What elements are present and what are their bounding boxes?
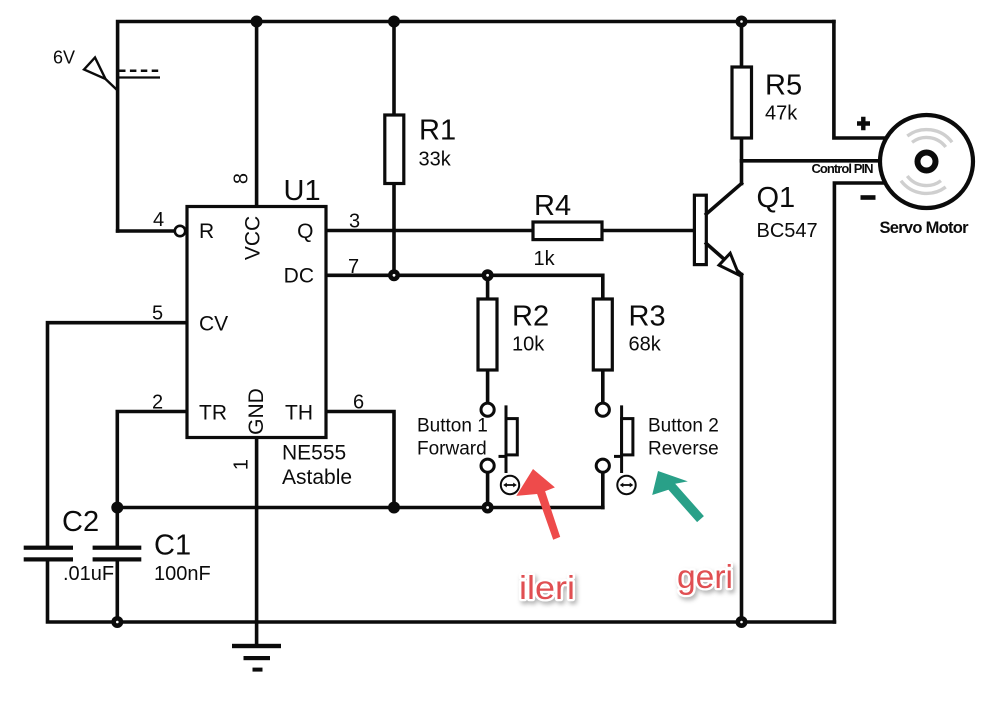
junction R5 top [736, 16, 748, 28]
wire control PIN line [742, 159, 889, 163]
wire R1 bottom to DIS net [392, 184, 396, 276]
junction R2 DIS [482, 269, 494, 281]
junction TH common [388, 502, 400, 514]
wire pin 8 VCC drop [255, 22, 259, 207]
junction TR common [111, 502, 123, 514]
svg-text:6V: 6V [53, 48, 75, 68]
wire pin 2 TR to C1 [117, 412, 187, 546]
resistor R4 [533, 222, 602, 240]
switch SW1 button 1 [481, 403, 517, 473]
svg-text:Servo Motor: Servo Motor [880, 219, 970, 237]
wire R2 to button 1 [486, 370, 490, 403]
capacitor C2 [24, 546, 73, 562]
svg-text:R5: R5 [765, 70, 802, 102]
svg-text:TR: TR [199, 402, 227, 425]
resistor R5 [732, 67, 752, 138]
svg-text:7: 7 [348, 256, 359, 278]
transistor Q1 [694, 184, 741, 276]
wire button 2 to common [601, 472, 605, 507]
wire R5 top [740, 22, 744, 68]
svg-text:68k: 68k [629, 334, 662, 356]
svg-text:Button 2: Button 2 [648, 416, 719, 437]
wire C1 bottom [116, 562, 120, 623]
wire C2 bottom and bottom rail [48, 562, 835, 623]
resistor R1 [385, 115, 404, 184]
svg-text:TH: TH [285, 402, 313, 425]
wire servo plus feed [834, 22, 888, 139]
svg-text:R2: R2 [512, 301, 549, 333]
resistor R2 [478, 299, 497, 370]
svg-text:U1: U1 [284, 175, 321, 207]
svg-text:1k: 1k [534, 248, 556, 270]
svg-text:geri: geri [677, 558, 733, 595]
svg-text:47k: 47k [765, 103, 798, 125]
wire pin 7 DC net to R3 [326, 275, 603, 299]
svg-text:Forward: Forward [417, 439, 487, 460]
junction R1 top [388, 16, 400, 28]
ground [232, 644, 281, 672]
svg-text:CV: CV [199, 312, 228, 335]
wire pin 6 TH [326, 412, 394, 508]
svg-text:C2: C2 [62, 506, 99, 538]
svg-text:10k: 10k [512, 334, 545, 356]
wire top VCC rail [118, 22, 834, 232]
svg-text:VCC: VCC [242, 216, 265, 260]
wire servo minus feed [834, 183, 888, 622]
wire R5 bottom to collector node [740, 138, 744, 184]
svg-text:DC: DC [284, 265, 314, 288]
svg-text:Button 1: Button 1 [417, 416, 488, 437]
svg-text:1: 1 [231, 459, 253, 470]
svg-text:R4: R4 [534, 190, 571, 222]
svg-text:5: 5 [152, 303, 163, 325]
svg-text:Reverse: Reverse [648, 439, 719, 460]
svg-text:Astable: Astable [282, 466, 352, 489]
switch SW2 button 2 [596, 403, 633, 473]
junction button 1 common [482, 502, 494, 514]
wire R4 to base [602, 229, 694, 233]
momentary symbol button 1 [501, 476, 519, 494]
junction emitter bottom rail [736, 616, 748, 628]
resistor R3 [593, 299, 612, 370]
wire emitter drop [740, 275, 744, 623]
svg-text:3: 3 [349, 211, 360, 233]
wire button common line [117, 506, 603, 510]
svg-text:4: 4 [153, 209, 164, 231]
svg-text:R: R [199, 220, 214, 243]
junction C1 bottom rail [111, 616, 123, 628]
wire R3 to button 2 [601, 370, 605, 403]
svg-text:8: 8 [231, 173, 253, 184]
6V supply flag [84, 58, 160, 91]
servo motor M1 [880, 115, 973, 208]
svg-text:BC547: BC547 [757, 220, 818, 242]
wire pin 4 reset [118, 229, 175, 233]
svg-text:100nF: 100nF [154, 563, 211, 585]
svg-text:Q1: Q1 [757, 182, 796, 214]
svg-text:Control PIN: Control PIN [812, 161, 874, 176]
IC U1 body [187, 207, 326, 438]
capacitor C1 [93, 546, 142, 562]
wire R1 top [392, 22, 396, 116]
wire pin 5 CV to C2 [48, 323, 188, 546]
annotation teal arrow [652, 471, 704, 522]
svg-text:C1: C1 [154, 530, 191, 562]
svg-text:.01uF: .01uF [63, 563, 114, 585]
svg-text:6: 6 [353, 392, 364, 414]
svg-text:Q: Q [297, 220, 313, 243]
annotation red arrow [516, 469, 560, 540]
svg-text:GND: GND [245, 388, 268, 435]
pin 4 inversion bubble [175, 226, 185, 236]
svg-text:33k: 33k [419, 149, 452, 171]
minus terminal [861, 195, 876, 200]
momentary symbol button 2 [617, 476, 635, 494]
wire button 1 to common [486, 472, 490, 507]
svg-text:2: 2 [152, 392, 163, 414]
junction VCC pin 8 [251, 16, 263, 28]
svg-text:R1: R1 [419, 114, 456, 146]
junction R1 DIS [388, 269, 400, 281]
svg-text:R3: R3 [629, 301, 666, 333]
svg-text:ileri: ileri [519, 569, 575, 606]
wire pin 3 Q to R4 [326, 229, 533, 233]
plus terminal [857, 117, 870, 130]
wire pin 1 to ground [255, 438, 259, 647]
svg-text:NE555: NE555 [282, 442, 346, 465]
wire R2 top [486, 275, 490, 299]
